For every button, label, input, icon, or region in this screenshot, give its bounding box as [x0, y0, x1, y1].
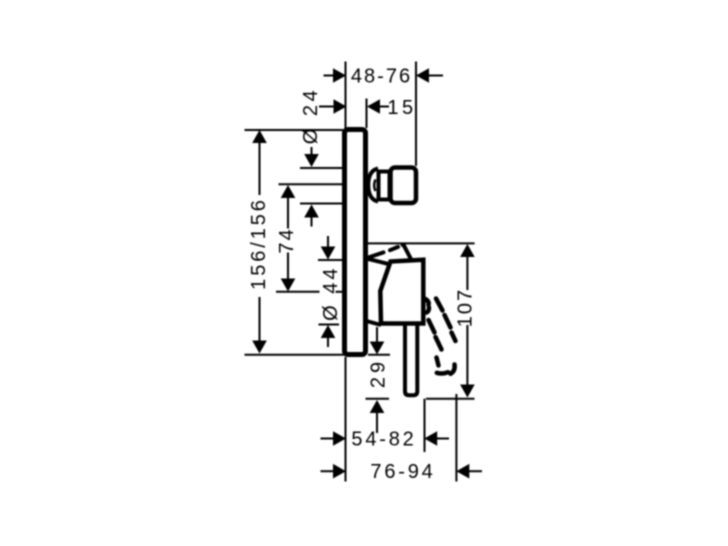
handle cap top edge [367, 259, 389, 265]
arrow 76-94 left [333, 464, 346, 479]
tick cap bottom (O44) [319, 324, 340, 326]
dimension line 74 [287, 197, 289, 229]
escutcheon plate [345, 130, 366, 355]
svg-text:76-94: 76-94 [370, 461, 435, 483]
svg-text:54-82: 54-82 [351, 429, 416, 451]
arrow 54-82 left [333, 431, 346, 446]
shut-off knob ring [379, 172, 390, 200]
arrow 74 top [281, 185, 296, 198]
extension line plate bottom (156 bottom) [245, 354, 346, 356]
tick knob top (O24) [300, 167, 342, 169]
extension line wall (48-76 left) [345, 62, 347, 131]
extension line 54-82 right [424, 399, 426, 452]
svg-text:Ø 44: Ø 44 [320, 266, 342, 321]
dimension line 76-94 [321, 470, 335, 472]
dimension line O24 [311, 147, 313, 156]
tick knob axis (74 top) [279, 183, 343, 185]
svg-text:15: 15 [387, 97, 416, 119]
arrow 76-94 right [456, 464, 469, 479]
arrow O24 top [304, 154, 319, 167]
extension line 76-94 right [455, 394, 457, 482]
arrow 107 top [460, 244, 475, 257]
svg-text:Ø 24: Ø 24 [300, 87, 322, 144]
arrow O24 bottom [304, 205, 319, 218]
tick lever bottom left (29) [366, 398, 390, 400]
svg-text:107: 107 [455, 288, 477, 327]
dimension line 107 [466, 255, 468, 290]
svg-text:156/156: 156/156 [248, 197, 270, 290]
dimension line 156/156 [259, 141, 261, 195]
tick cap top (O44) [318, 259, 342, 261]
dimension line 29 [376, 327, 378, 343]
extension line 107 top [368, 242, 475, 244]
shut-off knob dome inner arc [374, 180, 375, 192]
arrow 48-76 left [333, 68, 346, 83]
arrow 156 top [252, 130, 267, 143]
arrow 156 bottom [252, 341, 267, 354]
dimension line O44 [327, 236, 329, 248]
extension line knob end (48-76 right) [415, 62, 417, 167]
arrow 15 right [367, 99, 380, 114]
tick knob bottom (O24) [300, 203, 342, 205]
handle body [380, 260, 423, 324]
arrow O44 bottom [321, 325, 336, 338]
handle cap bottom edge [367, 321, 382, 325]
shut-off knob cylinder [391, 168, 417, 204]
shut-off knob dome [368, 169, 378, 202]
extension line plate top (156 top) [245, 129, 344, 131]
extension line plate bottom right (29 top) [368, 354, 390, 356]
dimension line 48-76 [324, 75, 335, 77]
arrow 48-76 right [416, 68, 429, 83]
dashed lever (open position) leader line [367, 244, 404, 258]
arrow 29 bottom [370, 400, 385, 413]
arrow 74 bottom [281, 279, 296, 292]
dimension line 54-82 [321, 438, 335, 440]
extension line wall bottom (54-82 / 76-94 left) [345, 357, 347, 482]
extension line plate face (15 left) [366, 99, 368, 129]
arrow 29 top [370, 342, 385, 355]
dimension line 15 [319, 106, 334, 108]
svg-text:48-76: 48-76 [351, 66, 412, 88]
svg-text:29: 29 [368, 358, 390, 388]
tick lever bottom right (107 / 54-82) [426, 398, 475, 400]
solid lever bar [405, 310, 417, 395]
dashed lever rotated-down position [425, 299, 456, 374]
lever pin (solid, open position) [403, 244, 411, 259]
svg-text:74: 74 [276, 227, 298, 253]
tick handle axis (74 bottom) [276, 291, 320, 293]
arrow 107 bottom [460, 385, 475, 398]
arrow 15 left [334, 99, 347, 114]
arrow 54-82 right [424, 431, 437, 446]
arrow O44 top [321, 247, 336, 260]
